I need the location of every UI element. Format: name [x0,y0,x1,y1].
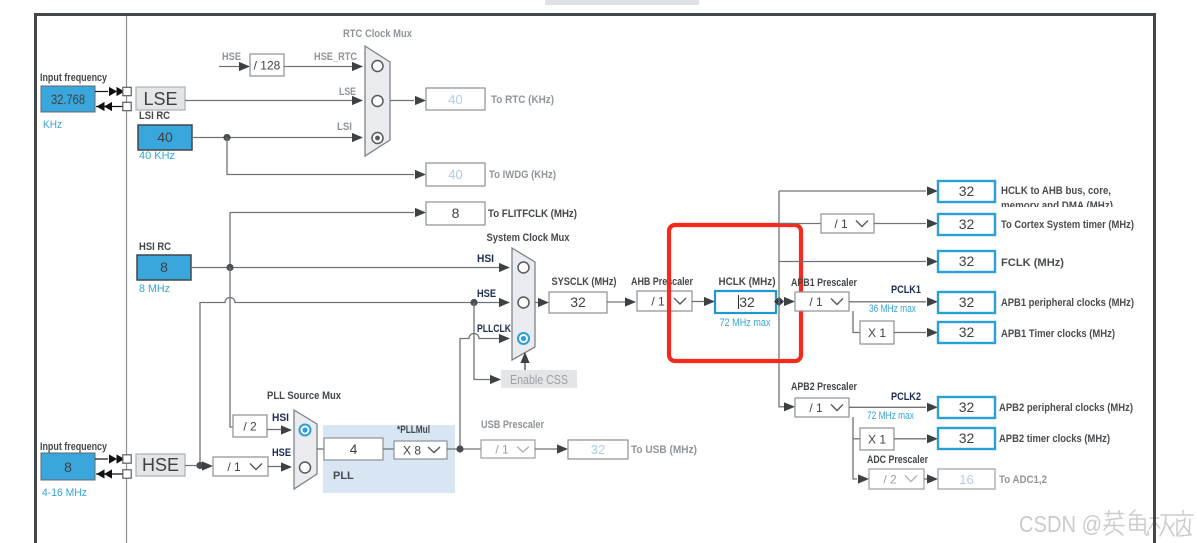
wire APB1 to PCLK1 output [849,301,926,303]
oscillator HSI RC box 8 [137,255,191,280]
value box APB1 timer 32 [938,322,995,343]
multiplier X1 box APB1 [860,321,894,344]
watermark hanzi zi [1104,511,1124,536]
svg-text:40: 40 [157,129,173,145]
oscillator LSE box [136,87,185,110]
junction diamond HCLK to bus [774,297,784,306]
svg-text:32: 32 [591,442,605,457]
value box APB2 peripheral 32 [938,397,995,418]
wire sys mux to SYSCLK box [535,302,538,304]
wire ADC prescaler to ADC box [924,478,929,480]
svg-text:HSI RC: HSI RC [139,241,171,253]
box Enable CSS [501,370,577,388]
wire LSI to RTC mux [192,137,352,139]
wire SYSCLK to AHB prescaler [607,301,625,303]
svg-text:32.768: 32.768 [51,91,85,107]
pin square OSC32_OUT [123,102,131,110]
value box FCLK 32 [938,251,995,272]
wire bus to FCLK output [779,261,926,263]
svg-text:KHz: KHz [43,119,62,131]
junction PLLCLK node [456,445,463,452]
svg-text:72 MHz max: 72 MHz max [720,317,771,329]
value box PLL input 4 [324,438,383,460]
svg-text:LSI: LSI [337,121,352,133]
svg-text:HSE: HSE [477,288,496,300]
wire pin to 32.768 return [96,106,123,108]
wire PLLMul out [447,448,481,450]
svg-text:32: 32 [959,253,975,269]
crystal pin arrows out [109,87,117,96]
svg-text:HSE: HSE [222,51,241,63]
frame line over watermark [1153,505,1156,543]
svg-text:PLL: PLL [333,470,354,482]
dropdown Cortex prescaler /1 [821,214,874,233]
svg-text:Enable CSS: Enable CSS [510,372,568,387]
svg-text:/ 2: / 2 [243,420,257,434]
wire LSI to IWDG [227,138,414,175]
wire APB1 branch to X1 [853,311,860,333]
svg-text:72 MHz max: 72 MHz max [867,410,914,422]
wire div1 to pll mux [268,466,283,468]
crystal pin arrows in [97,102,105,111]
svg-text:APB1 Prescaler: APB1 Prescaler [791,277,858,289]
svg-text:Input frequency: Input frequency [40,441,108,453]
svg-text:HSE: HSE [142,455,179,475]
svg-text:SYSCLK (MHz): SYSCLK (MHz) [552,276,617,288]
crystal pin arrows out [109,454,117,463]
crystal pin arrows in [97,469,105,478]
mux System Clock Mux body [512,248,535,360]
svg-text:32: 32 [959,183,975,199]
svg-text:32: 32 [739,294,755,310]
svg-text:CSDN @: CSDN @ [1019,511,1102,537]
radio LSI selected [372,133,383,144]
svg-text:/ 1: / 1 [495,443,509,457]
svg-text:X 1: X 1 [868,326,886,340]
svg-text:LSE: LSE [339,86,356,98]
radio HSE [300,462,311,473]
value box HCLK 32 editable [715,291,776,313]
svg-text:X 8: X 8 [403,444,421,458]
value box SYSCLK 32 [549,292,607,313]
svg-text:32: 32 [959,430,975,446]
pin square OSC_IN [123,455,131,463]
svg-text:40 KHz: 40 KHz [139,150,175,162]
wire bus to cortex prescaler [779,223,821,225]
svg-text:40: 40 [448,92,462,107]
svg-text:APB1 Timer clocks (MHz): APB1 Timer clocks (MHz) [1001,328,1115,340]
svg-text:PLL Source Mux: PLL Source Mux [267,390,342,402]
wire X1 to APB1 timer output [894,332,926,334]
value box HCLK AHB 32 [938,181,995,202]
radio HSE_RTC [372,61,383,72]
svg-text:APB2 peripheral clocks (MHz): APB2 peripheral clocks (MHz) [999,402,1133,414]
dropdown HSE prescaler /1 [213,457,268,476]
wire pin return [96,473,123,475]
svg-text:/ 128: / 128 [254,59,281,73]
wire LSE to RTC mux [185,100,352,102]
svg-text:APB1 peripheral clocks (MHz): APB1 peripheral clocks (MHz) [1001,297,1134,309]
wire HSI to FLITFCLK [230,213,414,268]
divider /2 box [233,415,267,437]
radio PLLCLK selected [518,333,529,344]
svg-text:USB Prescaler: USB Prescaler [481,419,545,431]
value box To RTC [426,88,485,110]
wire AHB to HCLK box [692,301,704,303]
wire HSI down to div2 [230,268,233,428]
value box To FLITFCLK [426,202,485,225]
svg-text:APB2 timer clocks (MHz): APB2 timer clocks (MHz) [999,433,1110,445]
svg-text:32: 32 [959,324,975,340]
pin square OSC_OUT [123,470,131,478]
dropdown USB prescaler /1 disabled [481,440,535,458]
svg-text:To IWDG (KHz): To IWDG (KHz) [489,169,556,181]
svg-text:HCLK (MHz): HCLK (MHz) [719,276,776,288]
svg-text:System Clock Mux: System Clock Mux [487,232,571,244]
svg-text:To ADC1,2: To ADC1,2 [999,474,1047,486]
dropdown APB1 prescaler /1 [795,292,849,311]
svg-text:8: 8 [452,205,460,221]
wire HSE down to Enable CSS [474,303,490,380]
value box APB1 peripheral 32 [938,292,995,313]
svg-text:40: 40 [448,167,462,182]
oscillator HSE box [136,454,185,476]
wire APB2 to PCLK2 output [849,406,926,408]
svg-text:HSE_RTC: HSE_RTC [314,51,357,63]
svg-text:/ 1: / 1 [227,460,241,474]
wire div2 to pll mux [267,429,283,431]
mux RTC Clock Mux body [365,46,390,156]
wire branch to X1 APB2 [853,438,860,440]
value box Cortex timer 32 [938,214,995,235]
svg-text:RTC Clock Mux: RTC Clock Mux [343,28,413,40]
svg-text:4: 4 [350,441,358,457]
junction HSI node [226,264,233,271]
oscillator LSI box 40 [138,125,192,150]
wire 4 to PLLMul [383,448,394,450]
svg-text:HSE: HSE [272,447,291,459]
svg-text:32: 32 [570,294,586,310]
wire HCLK to APB1 prescaler [784,297,795,306]
wire HSE to div1 [185,465,202,467]
radio HSI [518,262,529,273]
svg-text:8: 8 [160,259,168,275]
text cursor [738,295,740,309]
red highlight rectangle [669,225,801,361]
wire mux to PLL input box [317,448,324,450]
wire div128 to RTC mux [284,66,352,68]
svg-text:32: 32 [959,294,975,310]
svg-text:PLLCLK: PLLCLK [477,323,511,335]
svg-text:4-16 MHz: 4-16 MHz [42,487,87,499]
wire HSE up and to sys mux with hop [200,298,500,466]
oscillator input box 8 [41,453,95,480]
tab remnant top [545,0,699,5]
value box To ADC 16 [938,469,995,489]
svg-text:AHB Prescaler: AHB Prescaler [631,276,694,288]
junction HSE out node [196,462,203,469]
svg-text:8: 8 [64,459,72,475]
dropdown APB2 prescaler /1 [795,398,849,417]
value box To USB 32 [568,440,628,459]
svg-text:32: 32 [959,399,975,415]
svg-text:ADC Prescaler: ADC Prescaler [867,454,929,466]
svg-text:Input frequency: Input frequency [40,72,108,84]
svg-text:FCLK (MHz): FCLK (MHz) [1001,257,1064,269]
wire USB prescaler to USB box [535,448,557,450]
svg-text:/ 1: / 1 [809,401,823,415]
value box To IWDG [426,163,485,186]
wire HSI to sys mux [191,267,500,269]
svg-text:32: 32 [959,216,975,232]
svg-text:HCLK to AHB bus, core,: HCLK to AHB bus, core, [1001,185,1111,197]
svg-text:PCLK2: PCLK2 [891,391,921,403]
radio HSE [518,297,529,308]
wire bus corner to APB2 [779,406,784,408]
svg-text:LSI RC: LSI RC [139,110,170,122]
divider /128 box [250,54,284,76]
svg-text:HSI: HSI [272,412,289,424]
svg-text:LSE: LSE [143,89,177,109]
panel divider [126,16,128,543]
svg-text:HSI: HSI [477,253,494,265]
wire APB2 branch down [853,417,857,479]
mux PLL Source Mux body [294,410,317,489]
wire PLLCLK to sys mux with hop [460,334,500,449]
wire Enable CSS up arrow [524,358,526,370]
wire bus to HCLK AHB output [779,190,926,192]
panel PLL background [323,425,455,493]
bus vertical HCLK distribution [778,191,780,408]
svg-text:X 1: X 1 [868,433,886,447]
watermark hanzi se [1130,510,1148,535]
wire 8 to pin [95,458,108,460]
pin square OSC32_IN [123,87,131,95]
wire 32.768 to pin [95,91,108,93]
svg-text:8 MHz: 8 MHz [139,283,170,295]
wire HSE to div128 [219,66,240,68]
radio HSI selected [300,425,311,436]
svg-text:To FLITFCLK (MHz): To FLITFCLK (MHz) [488,208,577,220]
wire X1 to APB2 timer output [894,438,926,440]
wire to ADC prescaler [858,474,869,483]
wire RTC mux to RTC box [390,100,414,102]
svg-text:To Cortex System timer (MHz): To Cortex System timer (MHz) [1001,219,1134,231]
multiplier X1 box APB2 [860,428,894,450]
wire cortex prescaler to output [874,223,926,225]
svg-text:*PLLMul: *PLLMul [397,424,430,436]
junction LSI node [223,134,230,141]
dropdown PLLMul X8 [394,441,447,459]
svg-text:/ 1: / 1 [651,295,665,309]
junction HSE node [470,299,477,306]
value box APB2 timer 32 [938,428,995,449]
svg-text:36 MHz max: 36 MHz max [869,303,916,315]
radio LSE [372,96,383,107]
svg-text:/ 1: / 1 [834,217,848,231]
svg-text:/ 1: / 1 [809,295,823,309]
oscillator input box 32.768 [41,86,95,112]
svg-text:PCLK1: PCLK1 [891,284,921,296]
svg-text:APB2 Prescaler: APB2 Prescaler [791,381,858,393]
dropdown AHB prescaler /1 [637,291,692,311]
dropdown ADC prescaler /2 disabled [869,469,924,489]
svg-text:To USB (MHz): To USB (MHz) [631,444,697,456]
svg-text:16: 16 [959,472,973,487]
watermark hanzi ye [1173,511,1193,537]
svg-text:To RTC (KHz): To RTC (KHz) [491,94,554,106]
watermark hanzi ji [1150,511,1175,536]
svg-text:/ 2: / 2 [883,473,897,487]
